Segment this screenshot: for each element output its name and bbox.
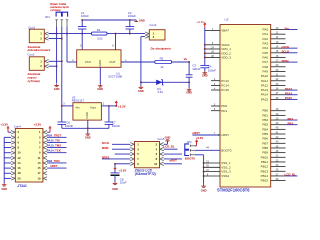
svg-text:BOOT0: BOOT0 <box>221 148 232 152</box>
svg-text:LCD_BL: LCD_BL <box>285 173 297 177</box>
svg-text:PB10: PB10 <box>261 155 269 159</box>
svg-text:VSS_3: VSS_3 <box>221 170 231 174</box>
svg-text:PD1: PD1 <box>221 109 227 113</box>
svg-text:100uF: 100uF <box>128 14 136 18</box>
svg-text:PB3_TDO: PB3_TDO <box>47 159 61 163</box>
svg-text:GND: GND <box>98 59 102 67</box>
svg-text:PA11: PA11 <box>261 79 268 83</box>
svg-text:SCLK: SCLK <box>102 141 110 145</box>
svg-text:100nF: 100nF <box>81 14 89 18</box>
svg-text:JP2: JP2 <box>187 140 192 144</box>
svg-text:PB1: PB1 <box>262 113 268 117</box>
svg-text:+3.3V: +3.3V <box>196 20 204 24</box>
svg-text:GND: GND <box>201 188 207 192</box>
svg-text:PB12: PB12 <box>261 165 269 169</box>
svg-text:nRST: nRST <box>50 164 58 168</box>
svg-text:10: 10 <box>154 162 158 166</box>
svg-text:PA14: PA14 <box>285 92 292 96</box>
svg-text:PB4: PB4 <box>262 127 268 131</box>
svg-text:+3.3V: +3.3V <box>119 169 127 173</box>
svg-text:100nF: 100nF <box>208 68 216 72</box>
svg-text:STM32F100C8T6: STM32F100C8T6 <box>217 187 250 192</box>
svg-text:PB8: PB8 <box>262 146 268 150</box>
svg-text:PA13_TMS: PA13_TMS <box>47 144 61 148</box>
svg-text:20: 20 <box>18 176 21 180</box>
svg-text:BOOT0: BOOT0 <box>185 157 195 161</box>
svg-text:PA15_TDI: PA15_TDI <box>47 138 60 142</box>
svg-text:PB3: PB3 <box>288 117 294 121</box>
svg-text:PA7: PA7 <box>263 60 269 64</box>
svg-text:SDIN: SDIN <box>282 59 289 63</box>
svg-text:Vo: Vo <box>184 57 188 61</box>
svg-text:PA0: PA0 <box>263 28 269 32</box>
svg-text:PA2: PA2 <box>263 37 269 41</box>
svg-text:PB15: PB15 <box>261 179 269 183</box>
svg-text:GND: GND <box>85 135 91 139</box>
svg-text:18: 18 <box>18 171 21 175</box>
svg-text:Vout: Vout <box>90 105 96 109</box>
svg-text:LCD_BL: LCD_BL <box>164 145 175 149</box>
svg-text:cyfrowej: cyfrowej <box>50 9 60 12</box>
svg-text:14: 14 <box>18 161 21 165</box>
svg-text:PB9: PB9 <box>262 151 268 155</box>
svg-text:mikrokontrolera: mikrokontrolera <box>28 48 51 52</box>
svg-text:1k: 1k <box>160 65 164 69</box>
svg-text:PA12: PA12 <box>261 83 268 87</box>
svg-text:PA6: PA6 <box>263 55 269 59</box>
svg-text:10: 10 <box>18 151 21 155</box>
svg-text:GND: GND <box>97 87 103 91</box>
svg-text:GND: GND <box>139 18 145 22</box>
svg-text:PA1: PA1 <box>263 32 269 36</box>
svg-text:GND: GND <box>85 111 89 119</box>
svg-text:PB2: PB2 <box>262 118 268 122</box>
svg-text:VCC: VCC <box>85 60 92 64</box>
svg-text:12: 12 <box>18 156 21 160</box>
svg-text:GND: GND <box>186 91 192 95</box>
svg-text:PB3: PB3 <box>262 123 268 127</box>
svg-text:(KAmodTFT2): (KAmodTFT2) <box>135 172 156 176</box>
svg-text:PA15: PA15 <box>285 96 292 100</box>
svg-text:U2: U2 <box>225 18 229 22</box>
svg-text:nRST: nRST <box>221 133 229 137</box>
svg-text:PB0: PB0 <box>262 109 268 113</box>
svg-text:PA9: PA9 <box>263 69 269 73</box>
svg-text:PB4: PB4 <box>288 121 294 125</box>
svg-text:GND: GND <box>112 187 118 191</box>
svg-text:+3.3V: +3.3V <box>196 136 204 140</box>
svg-text:19: 19 <box>38 176 41 180</box>
svg-text:JTAG: JTAG <box>17 184 27 188</box>
svg-text:nSCE: nSCE <box>282 45 290 49</box>
svg-text:0,02: 0,02 <box>97 36 103 40</box>
svg-text:VDD_3: VDD_3 <box>221 56 231 60</box>
svg-text:17: 17 <box>38 171 41 175</box>
svg-text:SRES: SRES <box>102 155 110 159</box>
svg-text:SCLK: SCLK <box>282 50 291 54</box>
svg-text:PB13: PB13 <box>261 169 269 173</box>
svg-text:OUT: OUT <box>109 60 116 64</box>
svg-text:PC14: PC14 <box>221 84 229 88</box>
svg-text:GND: GND <box>165 136 171 140</box>
svg-text:PA13: PA13 <box>285 87 292 91</box>
svg-text:PC15: PC15 <box>221 88 229 92</box>
svg-text:PB5: PB5 <box>262 132 268 136</box>
svg-text:PA4: PA4 <box>263 46 269 50</box>
svg-text:Con4: Con4 <box>14 125 21 129</box>
svg-text:GND: GND <box>202 74 208 78</box>
svg-text:PB11: PB11 <box>261 160 268 164</box>
svg-text:cyfrowej: cyfrowej <box>28 79 40 83</box>
svg-text:+3.3V: +3.3V <box>0 123 8 127</box>
svg-text:Do obciążenia: Do obciążenia <box>151 46 172 50</box>
svg-text:nRST: nRST <box>170 159 178 163</box>
svg-text:10uF: 10uF <box>120 180 127 184</box>
svg-text:100nF: 100nF <box>192 67 200 71</box>
svg-text:PB4_TRST: PB4_TRST <box>47 133 62 137</box>
svg-text:REG1117: REG1117 <box>72 98 85 102</box>
svg-text:Vin: Vin <box>75 105 80 109</box>
svg-text:SDIN: SDIN <box>102 146 109 150</box>
svg-text:16: 16 <box>18 166 21 170</box>
svg-text:GND: GND <box>54 87 60 91</box>
svg-text:PD0: PD0 <box>221 104 227 108</box>
svg-text:Con1: Con1 <box>28 25 35 29</box>
svg-text:PA14: PA14 <box>261 93 268 97</box>
svg-text:PB6: PB6 <box>262 137 268 141</box>
svg-text:PA10: PA10 <box>261 74 268 78</box>
svg-text:VSSA: VSSA <box>221 174 229 178</box>
svg-text:100nF: 100nF <box>65 124 73 128</box>
svg-text:100nF: 100nF <box>112 124 120 128</box>
svg-text:GND: GND <box>1 187 7 191</box>
svg-text:3.3V: 3.3V <box>157 90 163 94</box>
svg-text:PA15: PA15 <box>261 97 268 101</box>
svg-text:Con2: Con2 <box>28 53 35 57</box>
svg-text:VBAT: VBAT <box>221 29 229 33</box>
svg-text:Con3: Con3 <box>150 23 157 27</box>
svg-text:+3.3V: +3.3V <box>118 104 126 108</box>
svg-text:+3.3V: +3.3V <box>34 123 42 127</box>
svg-text:PA13: PA13 <box>261 88 268 92</box>
svg-text:R1: R1 <box>97 28 101 32</box>
svg-text:Con5: Con5 <box>157 137 164 141</box>
svg-text:nRST: nRST <box>192 131 200 135</box>
svg-text:PA5: PA5 <box>263 51 269 55</box>
svg-text:PA3: PA3 <box>263 41 269 45</box>
svg-text:R2: R2 <box>160 56 164 60</box>
svg-text:Vin: Vin <box>285 26 290 30</box>
svg-text:PC13: PC13 <box>221 79 229 83</box>
svg-text:JP1: JP1 <box>45 15 50 19</box>
svg-text:ZXCT1086: ZXCT1086 <box>108 75 122 79</box>
svg-text:PB14: PB14 <box>261 174 269 178</box>
svg-text:PA8: PA8 <box>263 65 269 69</box>
svg-text:GND: GND <box>138 89 144 93</box>
svg-text:15: 15 <box>38 166 41 170</box>
svg-text:13: 13 <box>38 161 41 165</box>
svg-text:PA14_TCK: PA14_TCK <box>47 149 61 153</box>
svg-text:PB7: PB7 <box>262 141 268 145</box>
